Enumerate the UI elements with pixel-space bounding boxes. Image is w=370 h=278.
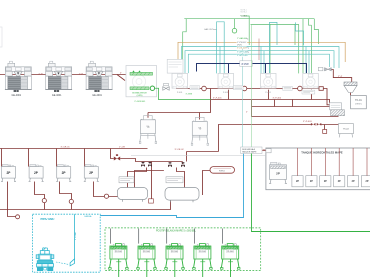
svg-text:2P: 2P	[338, 180, 341, 183]
svg-text:2"-GAS-401: 2"-GAS-401	[237, 37, 247, 40]
svg-text:4"-LOAD: 4"-LOAD	[74, 232, 77, 240]
svg-text:TK-02: TK-02	[343, 128, 350, 130]
svg-text:2P: 2P	[366, 180, 369, 183]
svg-text:3"-P-402: 3"-P-402	[273, 97, 282, 99]
svg-text:2"-P: 2"-P	[338, 76, 343, 78]
svg-text:2": 2"	[120, 73, 122, 75]
svg-text:TANQUE HORIZONTALES MAPE: TANQUE HORIZONTALES MAPE	[301, 150, 343, 154]
svg-text:3"-WTR-405: 3"-WTR-405	[237, 55, 247, 57]
svg-text:3"-GRN: 3"-GRN	[186, 94, 193, 96]
svg-text:DESCARGA A: DESCARGA A	[242, 148, 256, 151]
svg-text:TANQUE MAPE: TANQUE MAPE	[242, 151, 257, 154]
svg-text:V-GAS: V-GAS	[241, 15, 248, 18]
svg-text:POSITIF BELANJA MAPE 5 x 500 B: POSITIF BELANJA MAPE 5 x 500 BBL	[156, 230, 197, 233]
svg-text:2": 2"	[246, 111, 248, 113]
svg-text:2"-P: 2"-P	[79, 73, 84, 75]
svg-text:DIESEL: DIESEL	[355, 103, 363, 105]
svg-text:(GRN): (GRN)	[137, 95, 143, 97]
svg-text:2P: 2P	[352, 180, 355, 183]
svg-text:4"-PW: 4"-PW	[241, 62, 249, 66]
svg-text:2P: 2P	[310, 180, 313, 183]
svg-text:2"-P: 2"-P	[38, 73, 43, 75]
svg-text:FWKO: FWKO	[219, 171, 225, 173]
svg-text:PIPA/ GMU: PIPA/ GMU	[41, 217, 55, 221]
svg-text:GAS OUT: GAS OUT	[204, 28, 214, 31]
svg-text:2P: 2P	[324, 180, 327, 183]
svg-text:3"-CR-02: 3"-CR-02	[175, 149, 185, 151]
svg-text:BOMBA VERDE: BOMBA VERDE	[132, 91, 147, 94]
svg-text:TK-01: TK-01	[355, 99, 362, 102]
svg-text:NOTA 2: NOTA 2	[241, 11, 247, 14]
svg-text:3"-P-401: 3"-P-401	[213, 97, 222, 99]
svg-text:3"-OIL-403: 3"-OIL-403	[237, 48, 246, 50]
svg-text:CARGA: CARGA	[84, 215, 92, 218]
svg-text:3"-CR-01: 3"-CR-01	[61, 147, 71, 149]
svg-text:(FUT): (FUT)	[237, 45, 242, 47]
svg-text:2P: 2P	[296, 180, 299, 183]
svg-text:3"-P-403: 3"-P-403	[303, 121, 312, 123]
svg-text:P-GRN 401: P-GRN 401	[135, 101, 147, 103]
svg-text:2"-CR: 2"-CR	[119, 146, 125, 148]
